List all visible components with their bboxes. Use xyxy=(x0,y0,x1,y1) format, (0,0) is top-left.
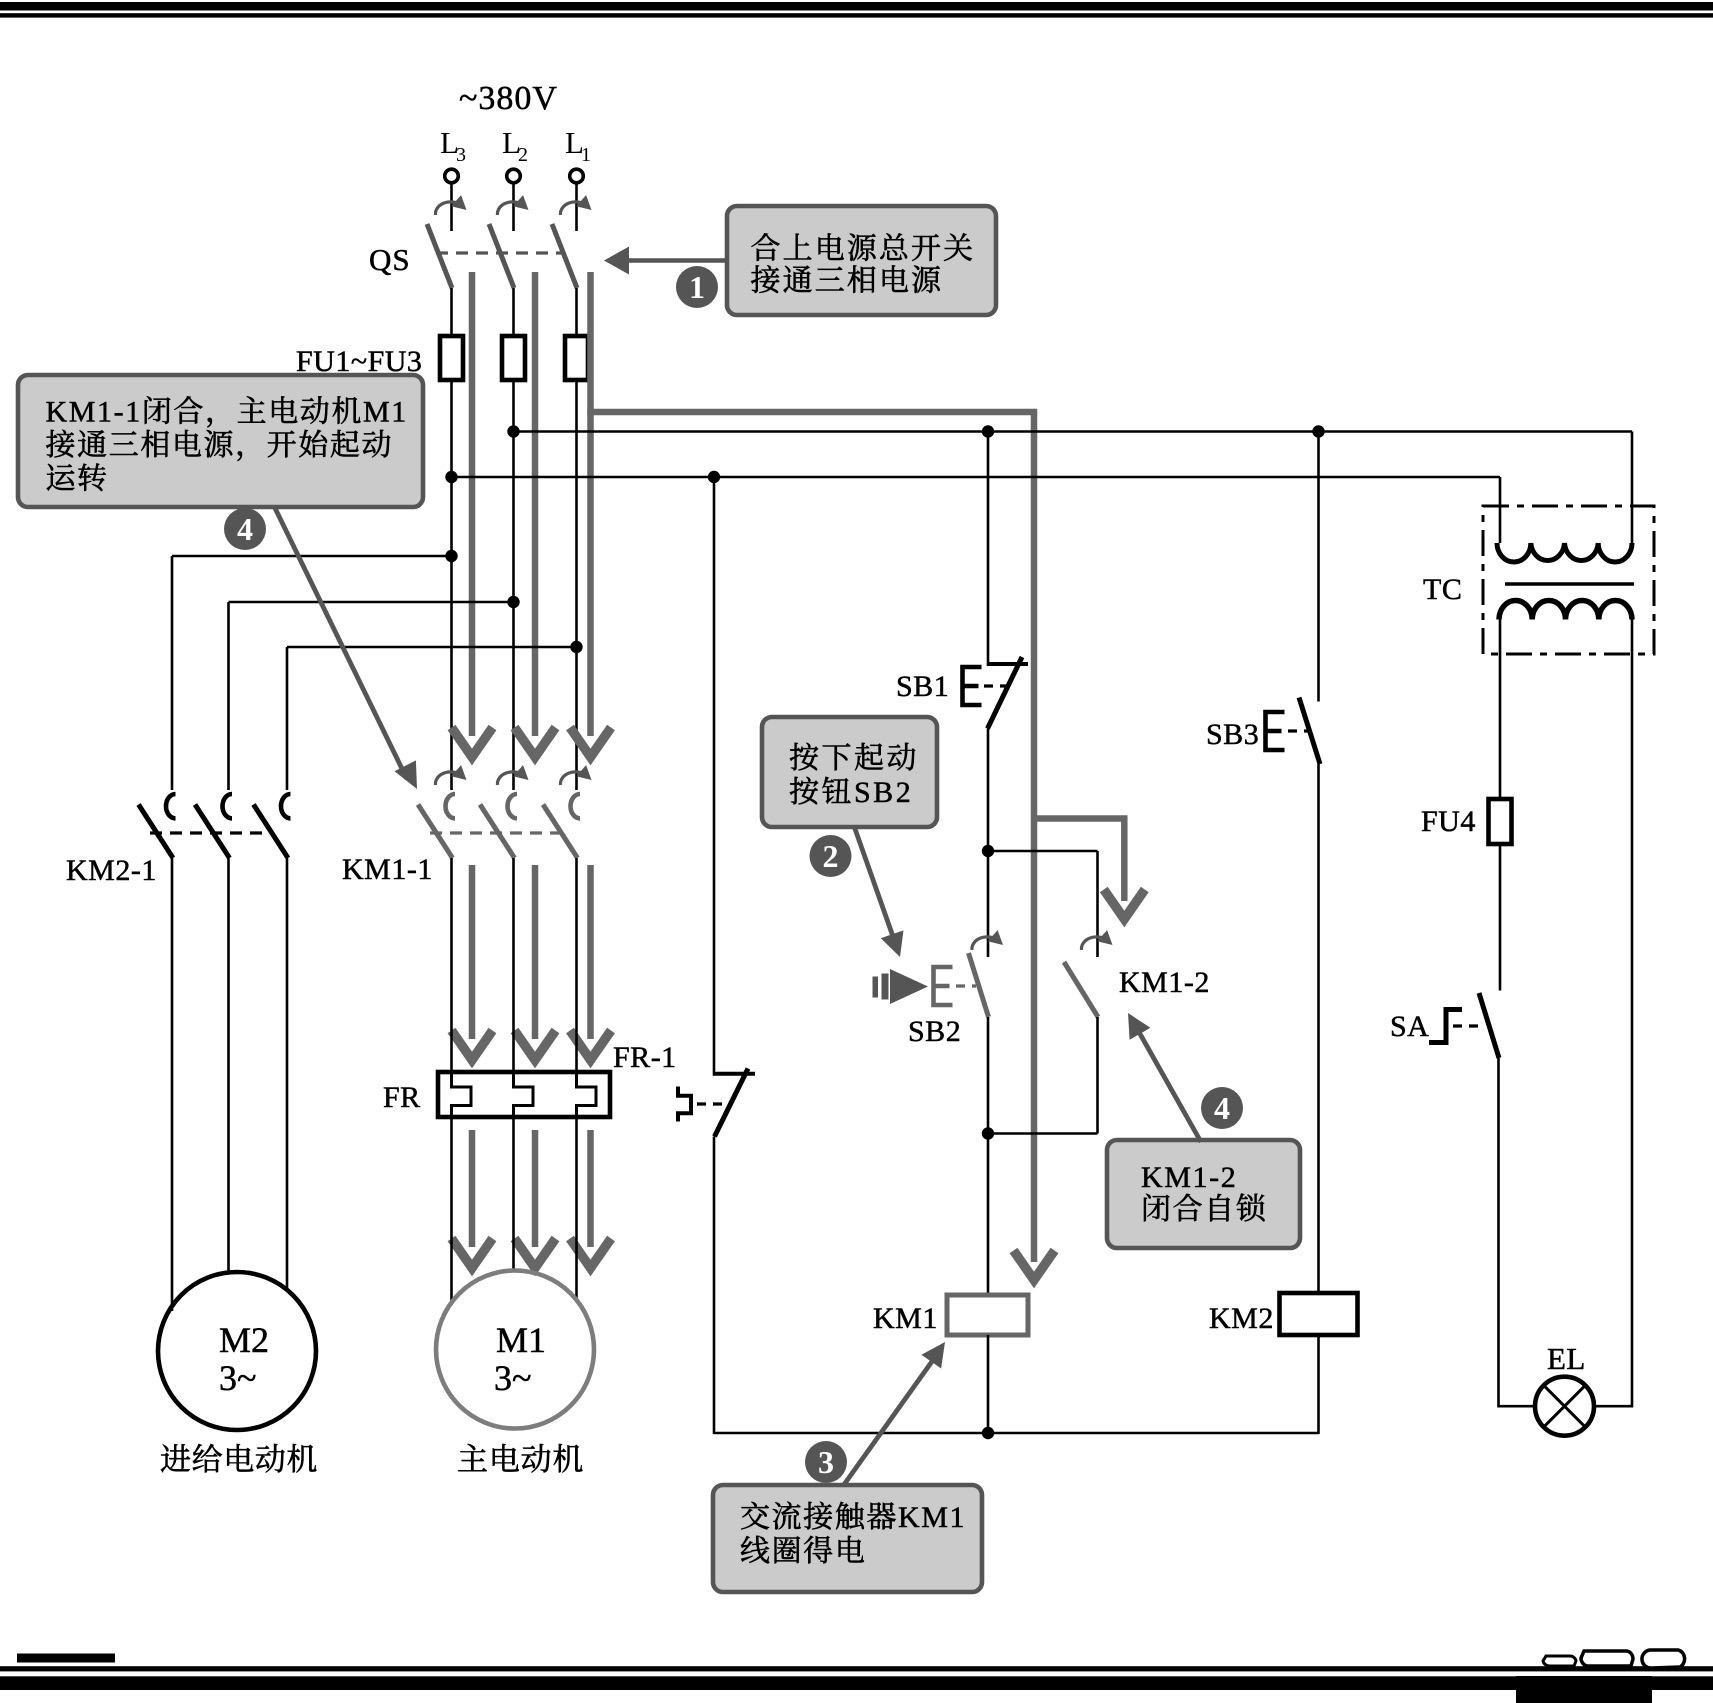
callout 3 box: 交流接触器KM1 线圈得电 xyxy=(713,1485,982,1592)
SB2 closing rotation arrow xyxy=(972,930,1003,950)
wire KM1 coil to bottom rail xyxy=(987,1335,990,1433)
bottom control rail xyxy=(714,1432,1319,1435)
motor M2 xyxy=(158,1272,316,1430)
junction L2 / KM2-1 branch xyxy=(507,596,519,608)
wire QS to FU1 (L3) xyxy=(450,288,453,336)
QS closing rotation arrow L2 xyxy=(497,195,528,215)
thermal relay FR heater box xyxy=(438,1072,610,1117)
wire phase L1 (fuse to KM1-1) xyxy=(575,380,578,790)
wire FR-1 to bottom rail xyxy=(713,1137,716,1435)
switch QS blade phase L2 xyxy=(489,224,514,288)
pushbutton SB1 (NC stop) xyxy=(963,657,1029,729)
KM1-1 closing rotation arrow xyxy=(435,765,466,785)
junction KM1-2 parallel bottom xyxy=(982,1127,994,1139)
label L3 xyxy=(440,125,466,166)
wire L2 terminal to QS xyxy=(512,183,515,231)
contactor contact KM2-1 pole at x=228.5 xyxy=(195,794,232,858)
contactor coil KM2 xyxy=(1280,1293,1358,1335)
wire control feed from L3 (lower) xyxy=(452,476,1501,479)
svg-text:M1: M1 xyxy=(363,396,408,429)
svg-text:4: 4 xyxy=(1214,1090,1230,1126)
svg-text:3: 3 xyxy=(456,144,466,166)
junction L3 / KM2-1 branch xyxy=(445,550,457,562)
callout 4 arrow to KM1-1 xyxy=(274,506,417,789)
current flow bar L3 (KM1-1 to FR) xyxy=(452,865,493,1060)
fuse FU3 xyxy=(565,336,588,380)
label L2 xyxy=(502,125,528,166)
svg-text:1: 1 xyxy=(689,269,705,305)
wire control left branch down to FR-1 xyxy=(713,477,716,1072)
svg-text:2: 2 xyxy=(518,144,528,166)
wire TC secondary right to EL xyxy=(1631,620,1634,1408)
wire KM1-1 to FR phase L3 xyxy=(450,858,453,1072)
current flow bar L2 (KM1-1 to FR) xyxy=(515,865,556,1060)
wire L3 terminal to QS xyxy=(450,183,453,231)
wire KM2-1 branch phase L1 xyxy=(287,647,577,790)
svg-text:M1: M1 xyxy=(496,1320,546,1360)
KM1-1 closing rotation arrow xyxy=(497,765,528,785)
thermal relay contact FR-1 (NC) xyxy=(678,1069,755,1137)
callout 4 box: KM1-2 闭合自锁 xyxy=(1107,1140,1300,1248)
label L1 xyxy=(565,125,591,166)
svg-text:KM1-2: KM1-2 xyxy=(1141,1161,1237,1194)
current flow bar L3 (FR to M1) xyxy=(452,1130,493,1268)
callout 4 box: KM1-1闭合 主电动机M1 接通三相电源 开始起动 运转 xyxy=(18,375,423,507)
callout 2 box: 按下起动 按钮SB2 xyxy=(762,717,937,827)
svg-text:FR-1: FR-1 xyxy=(613,1041,677,1074)
junction L3 / control feed xyxy=(445,471,457,483)
svg-text:SA: SA xyxy=(1390,1010,1429,1043)
contactor contact KM1-1 pole at x=451.5 xyxy=(418,794,455,858)
pushbutton SB3 (NO) xyxy=(1266,698,1321,765)
svg-text:SB2: SB2 xyxy=(908,1015,961,1048)
TC secondary winding xyxy=(1499,600,1632,619)
wire KM2-1 to M2 phase 3 xyxy=(286,858,289,1291)
svg-text:1: 1 xyxy=(581,144,591,166)
svg-text:FR: FR xyxy=(383,1081,421,1114)
junction L1 / KM2-1 branch xyxy=(570,641,582,653)
lamp EL xyxy=(1535,1377,1594,1436)
svg-text:KM1-1: KM1-1 xyxy=(342,853,433,886)
svg-text:3~: 3~ xyxy=(219,1358,256,1398)
QS gang link (dashed) xyxy=(436,251,562,254)
QS closing rotation arrow L1 xyxy=(560,195,591,215)
FR heater element at x=513.5 xyxy=(514,1072,534,1117)
wire TC primary left feed xyxy=(1499,477,1502,543)
contactor coil KM1 (energized, gray) xyxy=(947,1295,1028,1335)
svg-text:4: 4 xyxy=(237,511,253,547)
wire KM2-1 to M2 phase 1 xyxy=(171,858,174,1311)
junction SB1 branch xyxy=(982,425,994,437)
switch QS blade phase L3 xyxy=(427,224,452,288)
contactor contact KM1-1 pole at x=513.5 xyxy=(480,794,517,858)
callout 3 arrow to KM1 coil xyxy=(843,1342,945,1486)
step marker 1 xyxy=(676,266,718,308)
junction KM1 coil bottom xyxy=(982,1427,994,1439)
fuse FU2 xyxy=(502,336,525,380)
current flow elbow into KM1-2 branch xyxy=(1034,819,1145,920)
wire FR to M1 phase L2 xyxy=(512,1117,515,1271)
step marker 2 xyxy=(810,835,852,877)
wire SB3 to KM2 coil xyxy=(1317,764,1320,1293)
svg-text:SB2: SB2 xyxy=(854,776,913,809)
wire SA to EL xyxy=(1499,1058,1536,1408)
switch SA xyxy=(1429,993,1499,1058)
wire EL to TC right xyxy=(1594,1405,1632,1408)
wire QS to FU3 (L1) xyxy=(575,288,578,336)
wire FR to M1 phase L1 xyxy=(575,1117,578,1298)
wire feed to SB1 xyxy=(987,432,990,663)
fuse FU4 xyxy=(1489,799,1512,844)
wire phase L3 (fuse to KM1-1) xyxy=(450,380,453,790)
svg-text:~380V: ~380V xyxy=(459,80,558,117)
current flow branch to control circuit xyxy=(587,412,1054,1280)
wire KM2-1 branch phase L3 xyxy=(172,556,452,790)
KM2-1 gang link (dashed) xyxy=(150,831,272,834)
wire feed to SB3 xyxy=(1317,432,1320,702)
svg-text:FU4: FU4 xyxy=(1421,805,1476,838)
terminal L3 xyxy=(445,169,459,183)
step marker 4 (KM1-1) xyxy=(224,508,266,550)
svg-text:3: 3 xyxy=(818,1444,834,1480)
fuse FU1 xyxy=(440,336,463,380)
wire TC primary right feed xyxy=(1631,432,1634,544)
svg-text:KM2: KM2 xyxy=(1209,1302,1274,1335)
svg-text:KM1-1: KM1-1 xyxy=(46,396,142,429)
junction KM1-2 parallel top xyxy=(982,845,994,857)
current flow bar L1 (FR to M1) xyxy=(570,1130,611,1268)
current flow bar L2 (QS to KM1-1) xyxy=(515,272,556,757)
label M2 进给电动机 xyxy=(161,1444,190,1472)
wire FU4 to SA xyxy=(1499,844,1502,991)
current flow bar L3 (QS to KM1-1) xyxy=(452,272,493,757)
svg-text:KM2-1: KM2-1 xyxy=(66,854,157,887)
svg-text:SB3: SB3 xyxy=(1206,718,1259,751)
junction FR-1 control branch xyxy=(708,471,720,483)
wire KM1-2 branch bottom xyxy=(988,1017,1098,1134)
junction L2 / control feed xyxy=(507,425,519,437)
svg-text:KM1: KM1 xyxy=(873,1302,938,1335)
callout 1 arrow to QS xyxy=(604,247,727,275)
TC primary winding xyxy=(1497,543,1632,562)
transformer TC boundary (dash-dot) xyxy=(1483,506,1654,654)
wire KM1-1 to FR phase L1 xyxy=(575,858,578,1072)
KM1-1 gang link (dashed, gray) xyxy=(430,831,562,834)
KM1-1 closing rotation arrow xyxy=(560,765,591,785)
svg-text:TC: TC xyxy=(1423,573,1462,606)
terminal L1 xyxy=(570,169,584,183)
wire SB2 to KM1 coil xyxy=(987,1017,990,1295)
contactor contact KM1-1 pole at x=576.5 xyxy=(543,794,580,858)
wire phase L2 (fuse to KM1-1) xyxy=(512,380,515,790)
terminal L2 xyxy=(507,169,521,183)
pushbutton SB2 (NO start, pressed, gray) xyxy=(934,953,989,1017)
svg-text:SB1: SB1 xyxy=(896,670,949,703)
wire KM1-1 to FR phase L2 xyxy=(512,858,515,1072)
contactor contact KM2-1 pole at x=172.0 xyxy=(139,794,176,858)
callout 4b arrow to KM1-2 xyxy=(1128,1013,1201,1142)
current flow bar L2 (FR to M1) xyxy=(515,1130,556,1268)
contactor contact KM2-1 pole at x=287.0 xyxy=(254,794,291,858)
svg-text:M2: M2 xyxy=(219,1320,269,1360)
press action arrow at SB2 xyxy=(873,969,929,1004)
svg-text:2: 2 xyxy=(823,838,839,874)
QS closing rotation arrow L3 xyxy=(435,195,466,215)
switch QS blade phase L1 xyxy=(552,224,577,288)
callout 2 arrow to SB2 xyxy=(854,826,904,957)
wire SB1 to SB2 xyxy=(987,729,990,958)
FR heater element at x=576.5 xyxy=(577,1072,597,1117)
label M1 主电动机 xyxy=(458,1444,487,1471)
wire FR to M1 phase L3 xyxy=(450,1117,453,1305)
wire KM2-1 to M2 phase 2 xyxy=(227,858,230,1273)
TC core separator xyxy=(1505,582,1634,586)
FR heater element at x=451.5 xyxy=(452,1072,472,1117)
wire QS to FU2 (L2) xyxy=(512,288,515,336)
step marker 4 (KM1-2) xyxy=(1201,1087,1243,1129)
motor M1 (energized, gray) xyxy=(436,1271,594,1429)
step marker 3 xyxy=(805,1441,847,1483)
svg-text:KM1-2: KM1-2 xyxy=(1119,966,1210,999)
KM1-2 closing rotation arrow xyxy=(1081,930,1112,950)
svg-text:EL: EL xyxy=(1547,1341,1586,1376)
wire control feed from L2 (upper) xyxy=(514,430,1633,433)
wire KM2 coil to bottom rail xyxy=(1317,1335,1320,1434)
wire L1 terminal to QS xyxy=(575,183,578,231)
svg-text:3~: 3~ xyxy=(494,1358,531,1398)
svg-text:KM1: KM1 xyxy=(898,1501,966,1534)
callout 1 box: 合上电源总开关 接通三相电源 xyxy=(727,206,996,315)
wire KM1-2 branch top xyxy=(988,851,1098,957)
auxiliary contact KM1-2 (closed, gray) xyxy=(1064,962,1098,1017)
wire TC secondary left to FU4 xyxy=(1499,620,1502,800)
svg-text:QS: QS xyxy=(369,242,411,277)
wire KM2-1 branch phase L2 xyxy=(229,602,514,790)
current flow bar L1 (QS to KM1-1) xyxy=(570,272,611,757)
current flow bar L1 (KM1-1 to FR) xyxy=(570,865,611,1060)
junction SB3/KM2 branch xyxy=(1312,425,1324,437)
